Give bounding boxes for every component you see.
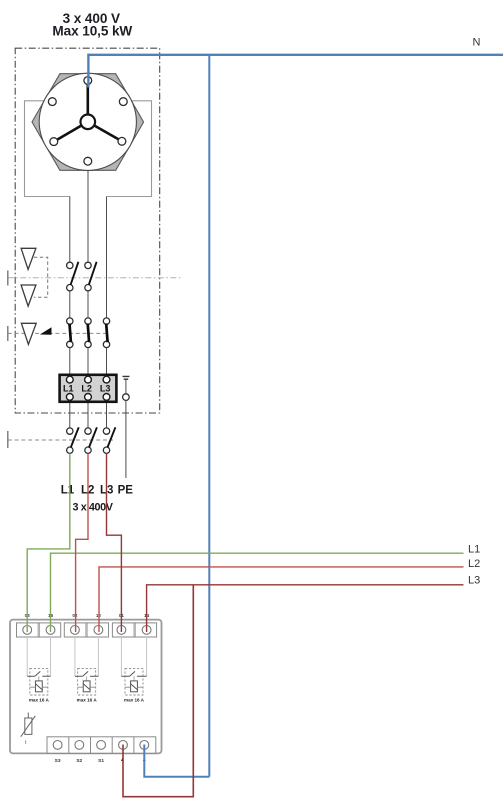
heating element star spokes	[54, 81, 122, 142]
svg-text:L3: L3	[100, 384, 111, 394]
contact group 2 pole L1 blade	[70, 324, 71, 343]
relay channel 1 fuse element	[38, 676, 40, 681]
relay channel 3 drop wires	[121, 637, 146, 676]
contact group 2 pole L2 blade	[88, 324, 89, 343]
contact group 2 pole L2 circles	[85, 318, 91, 324]
relay channel 3 contact	[121, 675, 146, 677]
mechanical linkage line main switch	[8, 439, 113, 441]
phase wire L1 supply (green)	[51, 553, 464, 632]
top terminal pair box 2	[64, 623, 108, 637]
svg-text:L3: L3	[468, 575, 480, 587]
terminal block circles bottom row	[66, 394, 73, 401]
contact group 1 pole L1 blade	[71, 262, 79, 285]
mechanical linkage line thermostat 1	[8, 277, 183, 279]
bottom terminal strip	[47, 737, 156, 753]
svg-text:S1: S1	[98, 758, 104, 764]
heater terminal bottom	[84, 157, 92, 165]
svg-text:L2: L2	[468, 558, 480, 570]
contact group 3 pole L3 circles	[103, 428, 109, 434]
svg-text:max 16 A: max 16 A	[29, 698, 50, 703]
contact group 1 pole L1 circles	[67, 262, 73, 268]
relay channel 2 contact	[75, 675, 99, 677]
top terminal pair box 1	[17, 623, 61, 637]
relay channel 2 fuse element	[86, 676, 88, 681]
contact group 2 pole L1 circles	[67, 318, 73, 324]
relay channel 2 dashed box	[78, 668, 96, 695]
wire L1 internal (heater leg to contacts to terminal block)	[69, 197, 71, 429]
contact group 2 pole L3 circles	[103, 318, 109, 324]
PE wire	[125, 400, 127, 478]
thermostat arrowhead	[40, 327, 52, 335]
wall tick 2	[7, 326, 9, 341]
bottom device: control unit outer box	[10, 620, 162, 754]
heating element hub	[81, 115, 96, 130]
neutral wire bottom run to control unit	[144, 745, 209, 777]
svg-text:L2: L2	[81, 384, 92, 394]
svg-text:max 16 A: max 16 A	[77, 698, 98, 703]
svg-text:L1: L1	[63, 384, 74, 394]
svg-text:S2: S2	[76, 758, 82, 764]
heater terminal lower-left	[50, 138, 58, 146]
wire L3 internal	[106, 197, 108, 429]
contact group 1 pole L2 blade	[89, 262, 97, 285]
heater terminal lower-right	[118, 137, 126, 145]
bottom terminal marks N and L	[121, 758, 124, 761]
svg-text:N: N	[473, 37, 481, 49]
relay channel 1 drop wires	[27, 637, 50, 676]
heater terminal top	[84, 77, 92, 85]
heating element circle	[39, 73, 136, 170]
thermostat link dashed path T1-T2	[34, 257, 48, 297]
relay channel 3 fuse element	[133, 676, 135, 681]
enclosure dashed box (sauna heater unit)	[15, 48, 160, 413]
thermostat sensor triangle T3	[21, 323, 36, 344]
heater body outline right	[107, 101, 152, 197]
relay channel 2 drop wires	[75, 637, 99, 676]
mechanical linkage line thermostat 2	[8, 332, 108, 334]
phase wire L3 supply (dark red)	[147, 585, 464, 632]
contact group 1 pole L2 circles	[85, 262, 91, 268]
top terminal circles	[23, 626, 32, 635]
contact group 3 pole L2 blade	[89, 427, 97, 447]
phase wire L3 heater feed (dark red)	[107, 453, 122, 632]
phase wire L2 heater feed (red)	[76, 453, 88, 632]
PE terminal circle	[123, 394, 130, 401]
relay channel 1 contact	[27, 675, 50, 677]
heater terminal upper-right	[119, 98, 127, 106]
phase wire L2 supply (red)	[99, 567, 464, 632]
svg-text:L1: L1	[468, 544, 480, 556]
heater body outline left	[25, 101, 70, 197]
wire L2 internal	[87, 165, 89, 429]
top terminal pair box 3	[112, 623, 156, 637]
wall tick 1	[7, 271, 9, 286]
contact group 3 pole L2 circles	[85, 428, 91, 434]
relay channel 3 dashed box	[125, 668, 143, 695]
contact group 3 (main switch) pole L1 circles	[67, 428, 73, 434]
svg-text:max 16 A: max 16 A	[124, 698, 145, 703]
terminal block circles top row	[66, 376, 73, 383]
phase wire L3 branch to control terminal (dark red)	[123, 585, 193, 797]
neutral wire main vertical drop	[208, 55, 210, 777]
svg-text:Max 10,5 kW: Max 10,5 kW	[52, 24, 132, 39]
contact group 2 pole L3 blade	[106, 324, 107, 343]
neutral wire heater drop	[87, 54, 89, 88]
heating element hexagon	[32, 74, 144, 171]
svg-text:L1: L1	[61, 485, 75, 497]
terminal block body	[60, 375, 117, 402]
wall tick 3	[7, 431, 9, 448]
relay channel 1 dashed box	[30, 668, 48, 695]
phase wire L1 heater feed (green)	[27, 453, 70, 632]
svg-text:3 x 400V: 3 x 400V	[72, 502, 113, 514]
contact group 3 pole L3 blade	[107, 427, 115, 447]
neutral wire N (blue) top bus	[88, 54, 503, 56]
contact group 3 pole L1 blade	[71, 427, 79, 447]
heater terminal upper-left	[48, 98, 56, 106]
temperature sensor (thermistor) symbol	[27, 713, 29, 719]
svg-text:PE: PE	[118, 485, 134, 497]
PE earth symbol	[123, 376, 130, 379]
svg-text:S3: S3	[55, 758, 61, 764]
thermostat sensor triangle T1	[21, 248, 36, 269]
bottom terminal circles	[53, 741, 62, 750]
thermostat sensor triangle T2	[21, 285, 36, 306]
